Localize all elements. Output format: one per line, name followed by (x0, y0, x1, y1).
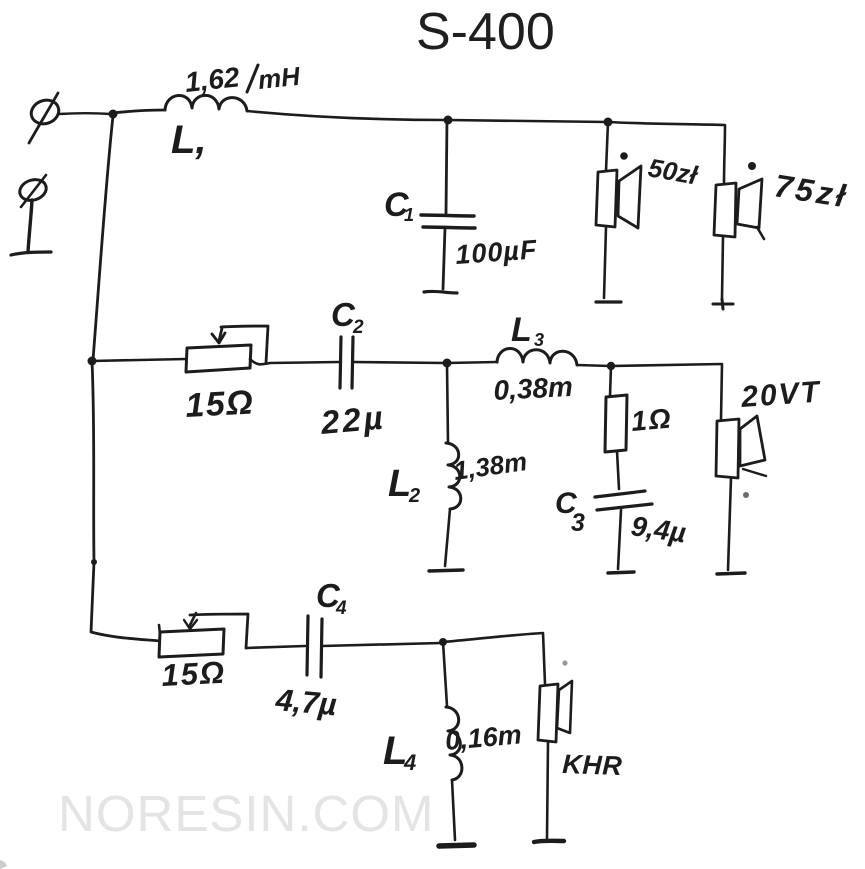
wire SP2 to ground (722, 237, 723, 298)
wire main bus node A to node D (93, 116, 113, 360)
wire node D to resistor R1 (92, 359, 186, 361)
node G junction (607, 362, 615, 370)
svg-text:100µF: 100µF (454, 234, 538, 270)
speaker SP1 (596, 166, 641, 228)
input terminal J1 (28, 93, 62, 143)
svg-text:22µ: 22µ (318, 398, 387, 441)
wire node H to L4 (443, 642, 447, 706)
wire R1 to C2 (250, 359, 339, 364)
ground below C1 (424, 291, 457, 293)
node F junction (443, 359, 452, 368)
node E junction (91, 559, 97, 565)
wire L1 to node B (247, 111, 448, 120)
inductor L3 (497, 348, 577, 365)
wire R3 to C4 (246, 646, 305, 648)
inductor L1 (165, 95, 247, 111)
svg-text:2: 2 (352, 317, 364, 338)
svg-text:0,38m: 0,38m (493, 371, 574, 406)
svg-text:1,62: 1,62 (183, 61, 241, 98)
svg-text:mH: mH (256, 61, 302, 95)
capacitor C3 (595, 491, 652, 510)
input terminal J2 (11, 175, 51, 255)
wire L2 to ground (445, 509, 450, 566)
node A junction (109, 110, 118, 119)
wire L4 to ground (452, 780, 455, 840)
ground below SP2 (713, 299, 733, 309)
resistor R1 15Ω (186, 345, 251, 372)
wire SP1 to ground (604, 227, 606, 298)
capacitor C4 (307, 616, 322, 677)
svg-text:3: 3 (571, 509, 585, 537)
svg-text:1Ω: 1Ω (630, 402, 674, 436)
wire node F to L3 (447, 362, 497, 363)
wire node A to L1 (113, 110, 165, 113)
node H junction (439, 638, 447, 646)
svg-text:2: 2 (408, 485, 420, 507)
svg-text:KHR: KHR (562, 749, 623, 781)
inductor L2 (446, 443, 461, 509)
wire node H to speaker SP4 (443, 633, 545, 684)
svg-text:4: 4 (335, 598, 347, 619)
wiper R1 (212, 326, 268, 363)
ground below SP4 (534, 841, 564, 842)
ground below L4 (439, 845, 474, 846)
wire R2 to C3 (610, 366, 619, 489)
polarity mark SP4 (562, 660, 567, 665)
svg-text:15Ω: 15Ω (161, 655, 227, 693)
speaker SP2 (714, 179, 764, 239)
speaker SP3 (716, 416, 766, 478)
svg-text:L: L (511, 311, 532, 349)
speaker SP4 (538, 681, 572, 742)
svg-text:15Ω: 15Ω (184, 383, 255, 425)
resistor R2 1Ω (605, 395, 627, 452)
svg-text:L,: L, (171, 118, 207, 162)
wiper R3 (184, 613, 248, 648)
wire node E to bottom corner (91, 562, 160, 641)
wire node G to speaker SP3 (611, 364, 722, 419)
wire C4 to node H (322, 643, 441, 646)
resistor R3 15Ω (159, 629, 224, 657)
node C junction (604, 118, 613, 127)
wire SP4 to ground (547, 742, 548, 838)
wire L3 to node G (577, 365, 610, 366)
ground below SP1 (596, 300, 621, 303)
wire C3 to ground (618, 510, 621, 569)
polarity dot SP1 (620, 152, 628, 160)
wire node F to L2 (447, 365, 448, 442)
wire node C to speaker SP1 (606, 122, 608, 171)
polarity mark SP3 (743, 492, 749, 498)
svg-text:4: 4 (403, 750, 416, 775)
polarity dot SP2 (748, 162, 756, 170)
wire node D to node E (92, 361, 94, 562)
svg-text:3: 3 (534, 330, 544, 350)
wire SP3 to ground (728, 478, 731, 570)
node B junction (444, 116, 453, 125)
svg-text:NORESIN.COM: NORESIN.COM (58, 785, 435, 842)
capacitor C2 (340, 337, 353, 388)
ground below L2 (429, 570, 463, 571)
node D junction (88, 357, 97, 366)
wire node B to node C (448, 120, 608, 122)
svg-text:20VT: 20VT (739, 375, 822, 414)
scan smudge bottom-left corner (0, 860, 7, 869)
wire C2 to node F (353, 362, 446, 363)
ground below C3 (608, 572, 634, 573)
inductor L4 (446, 707, 462, 780)
wire J1 to node A (59, 112, 111, 115)
wire node C to speaker SP2 (608, 122, 725, 183)
capacitor C1 (421, 120, 475, 289)
svg-text:S-400: S-400 (416, 3, 555, 61)
ground below SP3 (717, 573, 745, 574)
svg-text:L: L (388, 463, 411, 505)
svg-text:4,7µ: 4,7µ (273, 682, 338, 722)
svg-text:1: 1 (404, 205, 414, 225)
